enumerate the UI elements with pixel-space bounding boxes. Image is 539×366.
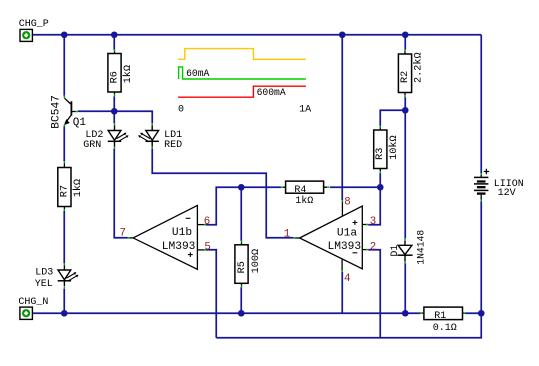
pin number 8 U1a <box>344 196 350 208</box>
pin end ticks R5 <box>241 240 243 287</box>
resistor R4 <box>283 181 327 193</box>
pin end ticks R4 <box>281 186 330 188</box>
designator R6 <box>109 71 120 83</box>
value 12V <box>498 188 516 199</box>
pin end ticks R2 <box>404 49 406 97</box>
junction R3 bottom / R4 / pin3 <box>377 184 384 191</box>
junction bottom rail at R5 <box>238 310 245 317</box>
designator LD2 <box>85 130 103 141</box>
node label CHG_P <box>19 19 49 30</box>
resistor R5 <box>235 243 248 286</box>
svg-text:5: 5 <box>204 241 210 253</box>
svg-text:R6: R6 <box>109 71 120 83</box>
designator R1 <box>434 311 446 322</box>
value 2.2k ohm R2 <box>413 52 425 83</box>
value LM393 U1b <box>162 241 196 253</box>
value LM393 U1a <box>328 241 362 253</box>
junction top rail at pin8 column <box>339 31 346 38</box>
pin end ticks LD3 <box>63 263 65 289</box>
junction R5 top on pin6 net <box>238 184 245 191</box>
wire battery - down to bottom junction <box>480 201 482 313</box>
svg-text:R7: R7 <box>59 185 70 197</box>
wire R7 to LD3 <box>63 211 65 263</box>
wire R3 top link <box>380 110 405 125</box>
pin end ticks LD1 <box>151 123 153 148</box>
pin end ticks R1 <box>420 312 466 314</box>
chart red trace 600mA <box>178 86 306 97</box>
value RED LD1 <box>164 140 182 151</box>
pin number 3 U1a <box>370 216 376 228</box>
wire R5 bottom link <box>240 287 242 313</box>
junction top rail at Q1 collector <box>61 31 68 38</box>
node label CHG_N <box>18 297 48 308</box>
svg-text:R1: R1 <box>434 311 446 322</box>
wire Q1 emitter to R7 <box>63 126 65 161</box>
wire U1a pin4 to bottom rail <box>341 272 343 313</box>
value YEL LD3 <box>35 279 53 290</box>
svg-text:0.1Ω: 0.1Ω <box>433 323 457 334</box>
op-amp U1a <box>295 201 367 270</box>
wire R3 bottom link <box>379 173 381 187</box>
battery LIION <box>474 169 489 200</box>
svg-text:U1a: U1a <box>337 227 357 239</box>
wire R4 right to junction <box>330 186 380 188</box>
svg-text:R2: R2 <box>400 71 411 83</box>
value 1k ohm R4 <box>295 195 313 207</box>
wire LD1 to U1a pin1 <box>152 149 293 238</box>
junction bottom rail at LD3 <box>61 310 68 317</box>
chart yellow trace <box>178 49 306 60</box>
wire U1b pin6 net to R4 <box>206 187 281 225</box>
resistor R7 <box>58 163 71 209</box>
svg-text:R3: R3 <box>375 148 386 160</box>
LED LD1 <box>138 125 159 146</box>
LED LD3 <box>58 265 79 286</box>
resistor R2 <box>398 52 411 96</box>
pin end ticks LD2 <box>114 123 116 148</box>
wire bottom rail net CHG_N <box>30 312 421 314</box>
transistor Q1 <box>65 98 76 124</box>
op-amp U1b <box>129 205 204 269</box>
wire R5 top link <box>240 187 242 241</box>
pin end ticks D1 <box>404 238 406 263</box>
wire R2 junction to D1 <box>404 110 406 238</box>
designator D1 <box>389 245 400 257</box>
wire U1b pin5 link <box>206 250 216 338</box>
junction bottom rail at R1 right / battery <box>478 310 485 317</box>
chart label 600mA <box>257 87 286 98</box>
designator LIION <box>494 179 524 190</box>
wire LD3 to bottom rail <box>63 289 65 313</box>
wire Q1 collector link <box>63 35 65 96</box>
resistor R1 <box>421 307 464 320</box>
svg-text:GRN: GRN <box>83 140 101 151</box>
svg-text:1A: 1A <box>299 105 311 116</box>
designator R4 <box>294 185 306 196</box>
pin end ticks R7 <box>63 161 65 211</box>
svg-text:2: 2 <box>370 241 376 253</box>
svg-text:YEL: YEL <box>35 279 53 290</box>
value 0.1 ohm R1 <box>433 323 457 334</box>
resistor R6 <box>108 52 121 95</box>
pin end ticks U1b <box>127 225 206 250</box>
svg-text:LD3: LD3 <box>35 267 53 278</box>
pin end ticks R6 <box>114 50 116 97</box>
chart label 60mA <box>186 68 209 79</box>
svg-text:LM393: LM393 <box>328 241 362 253</box>
resistor R3 <box>374 128 387 172</box>
designator R5 <box>237 261 248 273</box>
junction bottom rail at D1/R1 <box>402 310 409 317</box>
value 1N4148 D1 <box>416 230 427 265</box>
svg-text:12V: 12V <box>498 188 516 199</box>
svg-text:1: 1 <box>284 229 290 241</box>
designator U1b <box>172 227 192 239</box>
svg-text:1N4148: 1N4148 <box>416 230 427 265</box>
pin number 6 U1b <box>204 216 210 228</box>
pin number 1 U1a <box>284 229 290 241</box>
designator Q1 <box>73 117 87 129</box>
wire D1 to bottom rail <box>404 263 406 313</box>
svg-text:R5: R5 <box>237 261 248 273</box>
chart green trace 60mA <box>179 67 306 79</box>
junction top rail at R2 <box>402 31 409 38</box>
svg-text:600mA: 600mA <box>257 87 286 98</box>
svg-text:LM393: LM393 <box>162 241 196 253</box>
wire Q1 base link <box>78 110 114 112</box>
wire R6 bottom link <box>113 96 115 111</box>
value GRN LD2 <box>83 140 101 151</box>
value 1k ohm R6 <box>122 65 134 83</box>
pin end ticks Q1 <box>64 96 77 127</box>
pin end ticks battery <box>480 173 482 202</box>
junction base node Q1/R6/LEDs <box>111 108 118 115</box>
value 10k ohm R3 <box>388 135 400 159</box>
designator LD3 <box>35 267 53 278</box>
pin end ticks U1a <box>293 200 368 272</box>
svg-text:100Ω: 100Ω <box>251 249 262 273</box>
pin number 7 U1b <box>120 228 126 240</box>
value 100 ohm R5 <box>251 249 262 273</box>
pin number 4 U1a <box>344 273 350 285</box>
pin number 2 U1a <box>370 241 376 253</box>
designator R7 <box>59 185 70 197</box>
pin number 5 U1b <box>204 241 210 253</box>
wire junction to U1a pin3 <box>368 187 380 225</box>
chart label 1A <box>299 105 311 116</box>
svg-text:CHG_P: CHG_P <box>19 19 49 30</box>
svg-text:60mA: 60mA <box>186 68 209 79</box>
wire U1a pin2 link <box>368 250 380 338</box>
terminal pad CHG_N <box>20 307 33 319</box>
svg-text:BC547: BC547 <box>51 95 63 129</box>
wire LD2 to U1b pin7 <box>114 149 127 238</box>
pin end ticks R3 <box>379 125 381 173</box>
diode D1 <box>397 241 412 262</box>
designator R3 <box>375 148 386 160</box>
svg-text:RED: RED <box>164 140 182 151</box>
svg-text:7: 7 <box>120 228 126 240</box>
svg-text:2.2kΩ: 2.2kΩ <box>413 52 425 83</box>
value BC547 <box>51 95 63 129</box>
wire U1a pin8 to top rail <box>341 35 343 200</box>
svg-text:3: 3 <box>370 216 376 228</box>
svg-text:U1b: U1b <box>172 227 192 239</box>
svg-text:R4: R4 <box>294 185 306 196</box>
wire junction to LD2 <box>113 111 115 123</box>
wire R2 bottom link <box>404 97 406 110</box>
chart label 0 <box>178 105 184 116</box>
designator U1a <box>337 227 357 239</box>
wire right rail to battery + <box>480 35 482 173</box>
svg-text:Q1: Q1 <box>73 117 87 129</box>
wire LED branch to LD1 <box>114 111 152 123</box>
value 1k ohm R7 <box>72 179 84 197</box>
wire R6 top link <box>113 35 115 50</box>
svg-text:4: 4 <box>344 273 350 285</box>
wire R1 right link <box>465 312 482 314</box>
svg-text:8: 8 <box>344 196 350 208</box>
junction R2/R3/D1 node <box>402 107 409 114</box>
wire R2 top link <box>404 35 406 50</box>
terminal pad CHG_P <box>20 29 32 41</box>
designator R2 <box>400 71 411 83</box>
wire top rail net CHG_P <box>30 34 481 36</box>
svg-text:0: 0 <box>178 105 184 116</box>
svg-text:CHG_N: CHG_N <box>18 297 48 308</box>
svg-text:10kΩ: 10kΩ <box>388 135 400 159</box>
svg-text:1kΩ: 1kΩ <box>295 195 313 207</box>
LED LD2 <box>108 125 129 146</box>
svg-text:1kΩ: 1kΩ <box>72 179 84 197</box>
svg-text:1kΩ: 1kΩ <box>122 65 134 83</box>
svg-text:D1: D1 <box>389 245 400 257</box>
wire bottom feedback rail <box>216 313 481 338</box>
svg-text:6: 6 <box>204 216 210 228</box>
junction top rail at R6 <box>111 31 118 38</box>
designator LD1 <box>164 130 182 141</box>
